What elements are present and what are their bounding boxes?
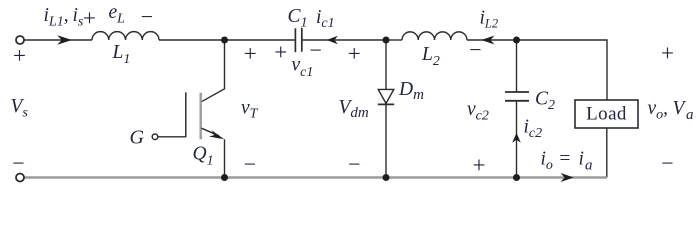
- svg-text:+: +: [244, 41, 257, 66]
- svg-text:−: −: [141, 4, 153, 29]
- transistor Q1 collector lead: [202, 40, 225, 102]
- svg-text:−: −: [661, 151, 673, 176]
- capacitor C2 top wire: [516, 40, 518, 92]
- svg-text:−: −: [12, 151, 24, 176]
- wire L2 to node C to top-right corner: [467, 40, 607, 100]
- svg-text:a: a: [686, 107, 694, 123]
- svg-text:+: +: [661, 41, 674, 66]
- svg-text:Dm: Dm: [398, 79, 424, 103]
- wire top rail left segment: [25, 39, 93, 41]
- svg-text:Vs: Vs: [11, 96, 29, 121]
- svg-text:L1: L1: [112, 42, 131, 67]
- svg-text:=: =: [560, 149, 571, 170]
- svg-text:+: +: [274, 39, 287, 64]
- svg-text:V: V: [673, 98, 687, 119]
- arrow i_c1 (left) on wire right of C1: [327, 36, 338, 45]
- arrow i_o (right) on bottom rail: [561, 173, 574, 182]
- svg-text:a: a: [585, 157, 593, 173]
- capacitor C2 plates: [505, 91, 529, 93]
- junction Q1 bottom: [221, 174, 228, 181]
- svg-text:+: +: [348, 41, 361, 66]
- svg-text:Q1: Q1: [193, 144, 214, 169]
- svg-text:Load: Load: [586, 103, 627, 124]
- svg-text:C2: C2: [535, 88, 555, 113]
- diode Dm cathode wire: [385, 104, 387, 177]
- junction C2 bottom: [513, 174, 520, 181]
- svg-text:C1: C1: [288, 6, 308, 31]
- arrow Q1 emitter: [209, 130, 224, 139]
- diode Dm triangle: [378, 89, 394, 103]
- svg-text:+: +: [473, 153, 486, 178]
- terminal bottom-left: [16, 174, 24, 182]
- svg-text:+: +: [13, 43, 26, 68]
- diode Dm cathode bar: [378, 103, 394, 105]
- capacitor C1 plates: [294, 28, 296, 52]
- svg-text:iL2: iL2: [480, 8, 499, 31]
- bottom rail (gray): [25, 176, 607, 178]
- svg-text:−: −: [244, 152, 256, 177]
- transistor Q1 gate lead: [158, 136, 186, 138]
- junction Dm bottom: [383, 174, 390, 181]
- svg-text:vc2: vc2: [467, 99, 489, 124]
- svg-text:−: −: [348, 152, 360, 177]
- svg-text:L2: L2: [421, 44, 440, 69]
- svg-text:+: +: [83, 6, 96, 31]
- svg-text:ic1: ic1: [316, 7, 335, 31]
- junction node A top: [221, 37, 228, 44]
- wire C1 to node B: [302, 39, 386, 41]
- arrow i_c2 (up) on C2 bottom wire: [512, 133, 521, 143]
- capacitor C2 bottom wire: [516, 101, 518, 178]
- terminal G circle: [152, 134, 158, 140]
- junction node C top: [513, 37, 520, 44]
- svg-text:io: io: [541, 149, 553, 174]
- svg-text:eL: eL: [109, 2, 126, 27]
- svg-text:iL1,: iL1,: [44, 5, 69, 30]
- transistor Q1 gate bar: [185, 92, 187, 137]
- svg-text:i: i: [579, 149, 584, 170]
- svg-text:ic2: ic2: [524, 117, 543, 142]
- diode Dm anode wire: [385, 40, 387, 89]
- svg-text:G: G: [130, 127, 145, 149]
- junction node B top: [383, 37, 390, 44]
- load box: [575, 100, 638, 128]
- inductor L1: [92, 32, 159, 40]
- transistor Q1 emitter lead: [202, 128, 220, 136]
- load bottom lead: [606, 128, 608, 178]
- terminal top-left: [16, 36, 24, 44]
- transistor Q1 body bar: [199, 93, 201, 139]
- arrow i_L2 (left) on wire right of L2: [481, 36, 494, 45]
- svg-text:Vdm: Vdm: [339, 97, 369, 121]
- svg-text:−: −: [309, 38, 321, 63]
- wire L1 to node A to C1: [159, 39, 295, 41]
- svg-text:−: −: [469, 37, 481, 62]
- svg-text:vo,: vo,: [648, 98, 669, 123]
- wire node B to L2: [386, 39, 402, 41]
- inductor L2: [402, 32, 467, 40]
- arrow i_s (right) on top-left wire: [57, 35, 72, 45]
- svg-text:vT: vT: [241, 98, 259, 122]
